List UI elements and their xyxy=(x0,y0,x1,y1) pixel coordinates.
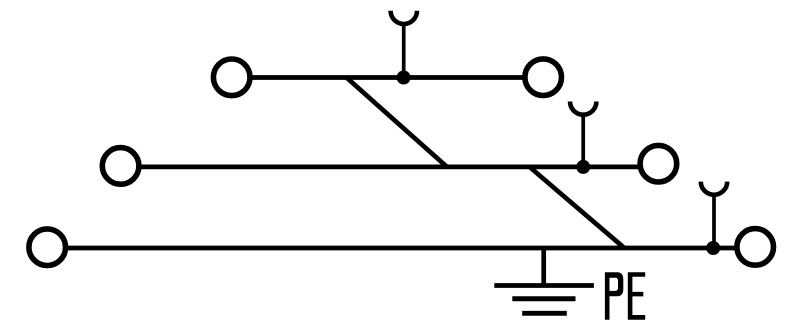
terminal circle L3 left xyxy=(29,229,66,266)
test tap T1 arc xyxy=(391,11,417,24)
terminal circle L2 left xyxy=(102,148,139,185)
terminal circle L3 right xyxy=(737,229,774,266)
ground bar 3 xyxy=(522,311,567,316)
node dot on L1 xyxy=(397,71,411,85)
test tap T2 stem xyxy=(581,115,585,167)
test tap T3 stem xyxy=(712,195,716,248)
label PE letter P xyxy=(605,272,623,320)
ground stem xyxy=(541,248,546,286)
ground bar 1 xyxy=(494,283,594,288)
terminal circle L1 right xyxy=(525,59,562,96)
node dot on L2 xyxy=(576,160,590,174)
node dot on L3 xyxy=(706,241,720,255)
ground bar 2 xyxy=(512,296,575,301)
wire L1 xyxy=(250,75,524,80)
terminal circle L2 right xyxy=(640,145,677,182)
label PE letter E xyxy=(628,272,645,319)
diagonal wire L2 to L3 xyxy=(530,167,625,248)
diagonal wire L1 to L2 xyxy=(347,78,447,167)
test tap T2 arc xyxy=(570,102,596,115)
wire L2 xyxy=(139,165,639,170)
test tap T3 arc xyxy=(701,182,727,195)
wire L3 xyxy=(65,246,737,251)
terminal circle L1 left xyxy=(213,59,250,96)
test tap T1 stem xyxy=(402,25,406,78)
